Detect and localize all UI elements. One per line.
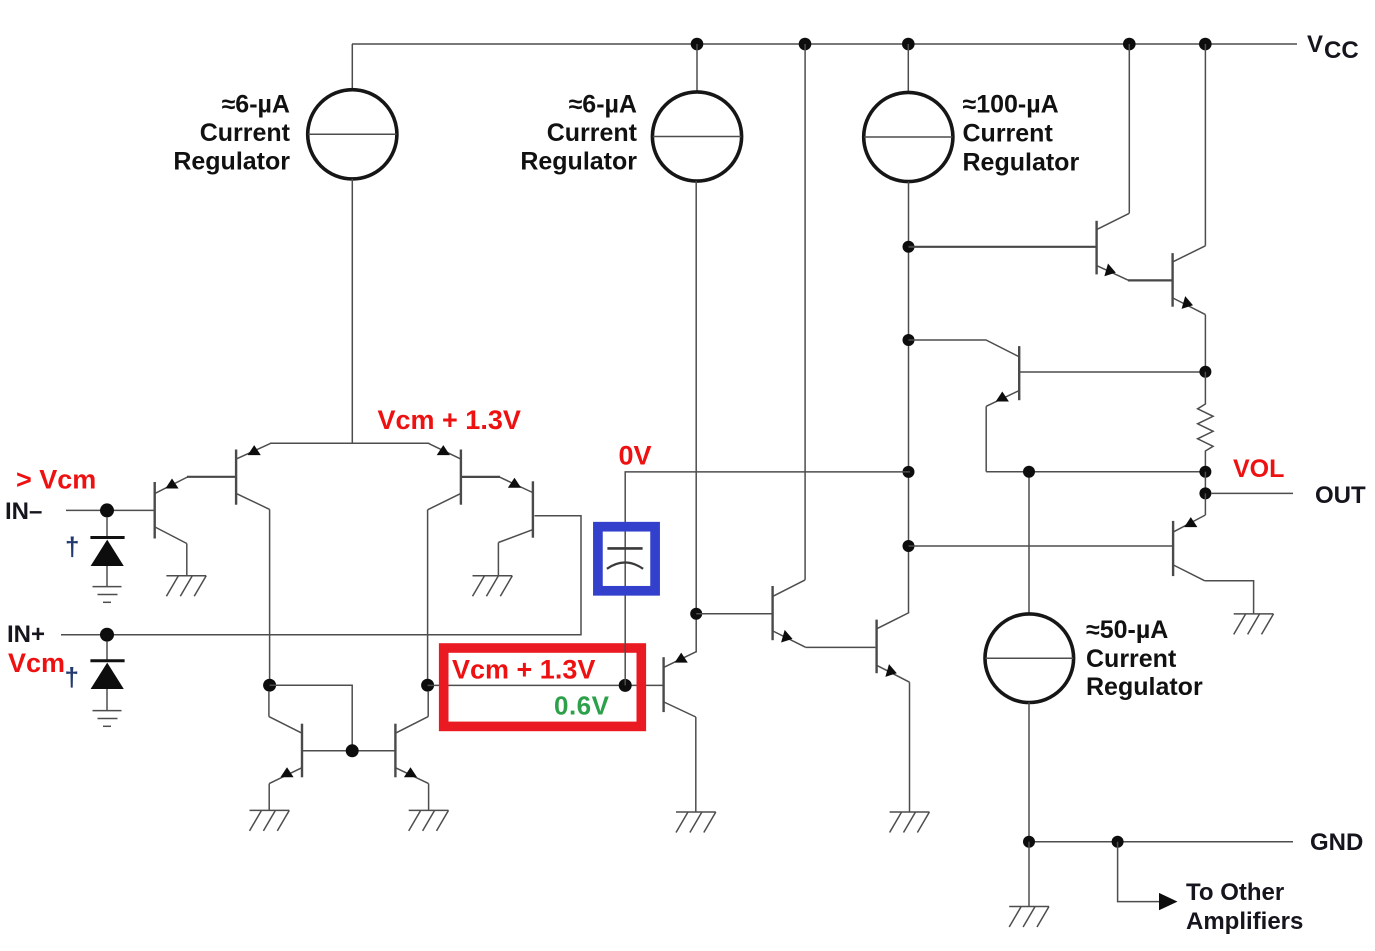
svg-text:Regulator: Regulator <box>173 148 290 176</box>
wire mirror diode link (dot to base rail) <box>270 685 353 751</box>
node dot OUT <box>1199 487 1211 499</box>
svg-text:≈6-µA: ≈6-µA <box>222 91 290 119</box>
label I2 "6-uA Current Regulator" <box>520 91 637 176</box>
diode D2 <box>90 661 124 710</box>
wire Q4-emitter to Q3-base (darlington link) <box>462 476 500 478</box>
transistor Q4 (PNP, base IN+) <box>498 477 533 576</box>
transistor Q10 (NPN output darlington 1) <box>1097 44 1130 280</box>
wire Q12 collector branch <box>909 340 1019 357</box>
wire I3 top <box>907 44 909 93</box>
wire OUT stub <box>1211 492 1293 494</box>
current regulator I2 (6uA middle) <box>652 92 741 181</box>
node dot I3/0V line <box>903 466 915 478</box>
ground (chassis) under Q9 <box>890 812 930 833</box>
wire 0V node (corner + vertical through capacitor) <box>625 472 910 686</box>
svg-text:CC: CC <box>1324 37 1359 64</box>
wire Q8-emitter to Q9-base <box>805 646 875 648</box>
node dot resistor bottom / 0V <box>1199 466 1211 478</box>
arrow to other amplifiers <box>1159 893 1178 910</box>
svg-text:Current: Current <box>200 119 291 147</box>
label I1 "6-uA Current Regulator" <box>173 91 290 176</box>
ground (earth) under D1 <box>93 587 122 603</box>
current regulator I1 (6uA left) <box>308 90 397 179</box>
node dot I3/Q13-base <box>903 540 915 552</box>
svg-text:Regulator: Regulator <box>520 148 637 176</box>
wire I1 bottom (tail feed) <box>351 179 353 443</box>
wire GND rail <box>1029 841 1293 843</box>
transistor Q11 (NPN output darlington 2) <box>1173 44 1206 372</box>
wire D1 top <box>106 517 108 538</box>
transistor Q2 (PNP, inner left) <box>236 444 270 686</box>
label I3 "100-uA Current Regulator" <box>963 91 1080 177</box>
wire I4 bottom to GND rail <box>1028 702 1030 842</box>
wire I2 bottom (to Q7 collector, crosses 0V line) <box>695 181 697 652</box>
transistor Q3 (PNP, inner right) <box>428 444 461 686</box>
ground (chassis) under Q4 <box>473 576 513 597</box>
svg-text:≈6-µA: ≈6-µA <box>569 91 637 119</box>
svg-text:0V: 0V <box>619 441 652 471</box>
node dot VCC/Q11-collector <box>1199 38 1212 51</box>
svg-text:> Vcm: > Vcm <box>16 465 96 495</box>
transistor Q1 (PNP, base IN-) <box>155 477 188 576</box>
svg-text:Vcm + 1.3V: Vcm + 1.3V <box>378 405 521 435</box>
svg-text:Regulator: Regulator <box>963 149 1080 177</box>
svg-text:†: † <box>65 532 79 562</box>
wire Q8 base <box>696 613 771 615</box>
ground (chassis) under Q13 <box>1234 614 1274 635</box>
node dot Q11-emitter / resistor / Q12-base <box>1199 366 1211 378</box>
svg-text:Vcm + 1.3V: Vcm + 1.3V <box>452 655 595 685</box>
wire I4 top (from 0V line down to regulator) <box>1028 472 1030 614</box>
node dot VCC/Q10-collector <box>1123 38 1136 51</box>
node IN- dot <box>100 503 114 517</box>
node dot I3/Q10-base <box>903 241 915 253</box>
svg-text:≈50-µA: ≈50-µA <box>1086 616 1168 644</box>
svg-text:Regulator: Regulator <box>1086 673 1203 701</box>
wire Q13 base (from 100uA column, crosses I4 wire) <box>909 545 1173 547</box>
svg-text:Current: Current <box>1086 645 1177 673</box>
diode D1 <box>90 538 124 587</box>
node dot VCC/Q8-collector <box>799 38 812 51</box>
transistor Q8 (NPN emitter follower) <box>773 44 806 647</box>
wire resistor-bottom to OUT node <box>1204 472 1206 494</box>
node dot Q3-collector / red box wire <box>421 679 434 692</box>
svg-text:IN+: IN+ <box>7 621 45 648</box>
node dot I2/Q8-base branch <box>690 608 702 620</box>
node dot GND/other-amps branch <box>1112 836 1124 848</box>
ground (chassis) under Q5 <box>250 810 290 831</box>
node dot GND/I4 <box>1023 836 1035 848</box>
node dot capacitor bottom <box>619 679 632 692</box>
node dot VCC/I3 <box>902 38 915 51</box>
svg-text:To Other: To Other <box>1186 879 1284 906</box>
svg-text:IN–: IN– <box>5 498 42 525</box>
wire Q10 base (from 100uA column) <box>909 246 1096 248</box>
wire Q10-emitter to Q11-base <box>1128 279 1172 281</box>
svg-text:Vcm: Vcm <box>8 648 65 678</box>
svg-text:V: V <box>1307 31 1323 58</box>
ground (chassis) under Q7 <box>676 812 716 833</box>
transistor Q9 (NPN) <box>877 613 910 813</box>
ground (earth) under D2 <box>93 711 122 727</box>
wire second-stage input node (through red box to Q7 base) <box>428 684 663 686</box>
svg-text:GND: GND <box>1310 829 1363 856</box>
wire to-other-amplifiers branch <box>1118 842 1160 902</box>
wire I3 bottom (main 100uA column) <box>908 182 910 613</box>
node dot 0V/I4 <box>1023 466 1035 478</box>
ground (chassis) under Q1 <box>166 576 206 597</box>
node dot VCC/I2 <box>691 38 704 51</box>
label I4 "50-uA Current Regulator" <box>1086 616 1203 701</box>
ground (chassis) under I4 <box>1009 907 1049 928</box>
wire Q1-emitter to Q2-base (darlington link) <box>187 476 235 478</box>
current regulator I4 (50uA) <box>985 614 1074 703</box>
wire 0V line right segment <box>986 471 1205 473</box>
svg-text:OUT: OUT <box>1315 482 1366 509</box>
wire I1 top <box>351 44 353 90</box>
capacitor C1 <box>607 548 643 568</box>
node dot I3/Q12-collector <box>903 334 915 346</box>
svg-text:Current: Current <box>547 119 638 147</box>
node dot mirror base rail <box>346 744 359 757</box>
wire IN+ input (runs right, corners up to Q4 base) <box>61 516 581 635</box>
wire I2 top <box>696 44 698 92</box>
node dot Q2-collector / mirror <box>263 679 276 692</box>
node IN+ dot <box>100 628 114 642</box>
red box highlight (Vcm + 1.3V / 0.6V) <box>444 648 642 726</box>
transistor Q7 (NPN second stage) <box>664 652 697 812</box>
transistor Q12 (PNP, VOL clamp) <box>986 346 1205 472</box>
wire IN- input <box>66 509 154 511</box>
transistor Q6 (NPN current mirror right) <box>395 691 428 810</box>
resistor R1 <box>1198 372 1214 472</box>
transistor Q5 (NPN current mirror left) <box>269 691 302 810</box>
wire VCC rail <box>352 43 1297 45</box>
wire I4 ground leg <box>1028 842 1030 907</box>
wire mirror base rail <box>302 750 395 752</box>
svg-text:0.6V: 0.6V <box>554 691 610 721</box>
ground (chassis) under Q6 <box>409 810 449 831</box>
blue box highlight around capacitor <box>598 527 655 591</box>
wire D2 top <box>106 642 108 661</box>
svg-text:Current: Current <box>963 120 1054 148</box>
wire input tail rail <box>270 442 429 444</box>
current regulator I3 (100uA) <box>864 92 953 181</box>
svg-text:VOL: VOL <box>1233 455 1284 483</box>
transistor Q13 (NPN output low side) <box>1173 493 1254 614</box>
svg-text:Amplifiers: Amplifiers <box>1186 908 1303 935</box>
svg-text:≈100-µA: ≈100-µA <box>963 91 1059 119</box>
svg-text:†: † <box>65 662 79 692</box>
label VCC <box>1307 31 1359 64</box>
